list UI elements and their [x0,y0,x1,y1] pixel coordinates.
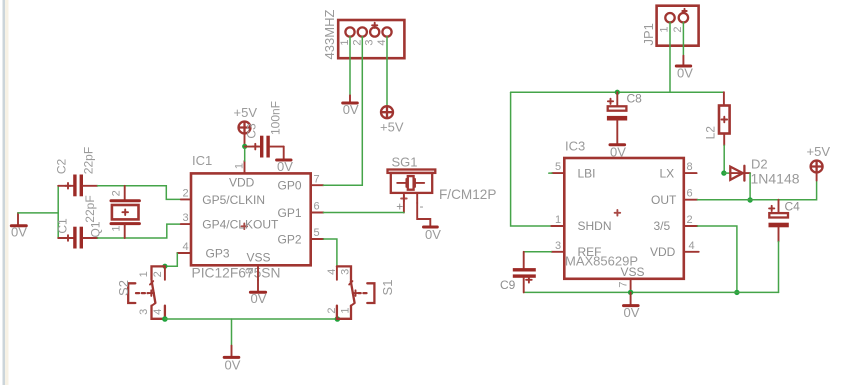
svg-text:7: 7 [617,281,629,287]
diode D2 1N4148 [724,156,800,186]
svg-text:1: 1 [339,307,351,313]
svg-text:L2: L2 [704,126,718,140]
wire 433 pin4 to +5V [386,37,388,106]
wire OUT net to +5V [697,181,816,200]
junction C8 node [615,90,620,95]
svg-text:1: 1 [555,214,561,226]
svg-text:F/CM12P: F/CM12P [439,187,496,202]
ground 0V under 433 pin1 [343,95,359,117]
svg-text:3: 3 [138,309,150,315]
switch S2 [116,266,165,318]
connector JP1 [641,6,698,46]
ground 0V under JP1 [676,56,693,81]
wire bottom rail to ground [231,319,233,346]
svg-text:2: 2 [351,39,363,45]
svg-text:3: 3 [555,240,561,252]
svg-text:6: 6 [687,188,693,200]
svg-text:1: 1 [110,226,122,232]
svg-text:VSS: VSS [247,251,271,265]
capacitor C8 [607,92,642,144]
svg-text:1: 1 [233,163,245,169]
power +5V right [807,144,831,181]
svg-text:VSS: VSS [621,265,645,279]
svg-text:1: 1 [138,271,150,277]
svg-text:D2: D2 [751,156,768,171]
svg-text:REF: REF [578,245,602,259]
svg-text:2: 2 [110,190,122,196]
wire IC1 pin4 to S2 [165,253,177,266]
svg-text:C2: C2 [55,159,69,175]
svg-text:C4: C4 [785,200,801,214]
svg-text:3/5: 3/5 [654,219,671,233]
svg-text:IC1: IC1 [192,153,212,168]
svg-text:PIC12F675SN: PIC12F675SN [192,266,281,281]
wire ground to C1/C2 rail [18,212,58,214]
svg-text:C8: C8 [627,92,643,106]
svg-text:S2: S2 [116,280,131,296]
capacitor C1 22pF [56,195,98,248]
svg-text:LX: LX [660,166,675,180]
svg-text:4: 4 [183,241,189,253]
svg-text:433MHZ: 433MHZ [322,10,337,60]
svg-text:JP1: JP1 [641,23,656,45]
svg-text:0V: 0V [251,291,267,306]
svg-text:8: 8 [687,161,693,173]
junction bottom right [335,316,341,322]
svg-text:+: + [396,200,403,214]
wire top supply rail [511,91,724,93]
svg-text:3: 3 [183,212,189,224]
wire L2 to LX node [723,145,725,173]
svg-text:7: 7 [314,173,320,185]
capacitor C3 100nF [245,101,284,158]
svg-text:0V: 0V [11,225,27,240]
svg-text:3: 3 [339,269,351,275]
svg-text:0V: 0V [343,102,359,117]
op-amp IC1 PIC12F675SN [177,153,323,281]
wire 3/5 to VSS rail [697,226,737,292]
junction 3/5 VSS [734,290,739,295]
wire IC1 pin6 to SG1 plus [323,212,404,214]
svg-text:+5V: +5V [380,120,404,135]
junction OUT node [747,197,752,202]
svg-text:4: 4 [152,309,164,315]
ground 0V left [11,213,27,240]
svg-text:Q1: Q1 [89,221,103,237]
svg-text:2: 2 [326,307,338,313]
switch S1 [326,266,395,318]
ground 0V for SG1 [424,227,442,242]
svg-text:GP3: GP3 [206,246,230,260]
svg-text:-: - [420,199,424,213]
svg-text:+5V: +5V [807,144,831,159]
junction S2 top [162,264,167,269]
svg-text:0V: 0V [677,66,693,81]
ground 0V under IC3 [624,292,640,320]
svg-text:5: 5 [555,161,561,173]
wire SG1 minus to ground [417,203,430,226]
svg-text:6: 6 [314,201,320,213]
ground 0V bottom center [224,346,241,373]
svg-text:GP4/CLKOUT: GP4/CLKOUT [202,218,279,232]
power +5V under 433 pin4 [380,106,404,134]
svg-text:LBI: LBI [578,166,596,180]
ground 0V under IC1 pin8 [250,280,266,306]
svg-text:GP2: GP2 [278,232,302,246]
svg-text:1: 1 [659,26,671,32]
svg-text:GP1: GP1 [278,206,302,220]
wire +5V node to VDD pin [244,146,246,161]
svg-text:2: 2 [152,271,164,277]
wire JP1 pin2 to ground [682,22,684,55]
svg-text:SG1: SG1 [392,155,418,170]
wire C4 bottom to VSS rail [778,242,780,293]
svg-text:VDD: VDD [229,176,255,190]
svg-text:2: 2 [687,214,693,226]
svg-text:2: 2 [183,188,189,200]
svg-text:IC3: IC3 [565,139,585,154]
svg-text:4: 4 [376,39,388,45]
wire JP1 pin1 down to rail [669,22,671,92]
buzzer SG1 [388,155,497,214]
junction bottom left [162,316,168,322]
wire REF to C9 [524,251,552,253]
wire C2 to IC1 pin2 [98,186,181,200]
svg-text:S1: S1 [380,280,395,296]
wire C1/C2 left rail [57,186,59,238]
wire VSS rail [524,291,779,293]
svg-text:5: 5 [314,227,320,239]
svg-text:1: 1 [339,39,351,45]
power +5V above IC1 [234,105,259,146]
svg-text:0V: 0V [425,227,441,242]
ground 0V under C8 [610,144,626,159]
module 433MHZ [322,10,404,60]
wire IC1 pin5 to S1 [323,239,337,266]
svg-text:0V: 0V [277,159,293,174]
capacitor C9 [500,252,536,293]
svg-text:VDD: VDD [650,245,676,259]
wire bottom rail S2 to S1 [165,318,338,320]
inductor L2 [704,92,730,145]
svg-text:GP5/CLKIN: GP5/CLKIN [202,193,265,207]
svg-text:OUT: OUT [651,193,677,207]
wire C1 to IC1 pin3 [98,224,181,238]
svg-text:3: 3 [364,39,376,45]
wire D2 cathode to OUT [749,173,751,200]
svg-text:22pF: 22pF [83,195,97,222]
ground 0V for C3 [277,147,294,174]
wire left rail to SHDN [511,92,552,226]
crystal Q1 [89,186,140,238]
wire 433 pin2 to IC1 pin7 [323,37,362,186]
svg-text:+5V: +5V [234,105,258,120]
svg-text:2: 2 [672,26,684,32]
wire 433 pin1 to ground [349,37,351,96]
svg-text:0V: 0V [225,358,241,373]
svg-text:SHDN: SHDN [578,219,612,233]
svg-text:C9: C9 [500,278,516,292]
svg-text:100nF: 100nF [269,101,283,135]
junction VSS pin7 [628,290,633,295]
svg-text:4: 4 [689,240,695,252]
svg-text:1N4148: 1N4148 [751,170,800,186]
svg-text:GP0: GP0 [278,179,302,193]
svg-text:C1: C1 [56,218,70,234]
svg-text:4: 4 [326,269,338,275]
junction VDD node [242,144,247,149]
svg-text:C3: C3 [245,123,259,139]
capacitor C2 22pF [0,0,98,196]
op-amp IC3 MAX85629P [549,139,699,293]
svg-text:22pF: 22pF [82,147,96,174]
junction LX node [721,170,726,175]
capacitor C4 [769,200,801,242]
svg-text:0V: 0V [624,305,640,320]
svg-text:8: 8 [244,268,256,274]
